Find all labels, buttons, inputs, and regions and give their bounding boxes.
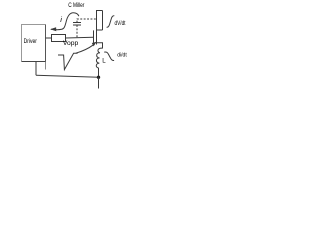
transistor Q1 gate bar (93, 30, 95, 42)
svg-text:L: L (102, 57, 106, 64)
svg-text:di/dt: di/dt (117, 53, 127, 59)
transistor Q1 drain lead (97, 29, 103, 31)
wire drain loop left vertical (97, 11, 103, 29)
arrow Vopp to source node (76, 45, 94, 53)
wire i current arrow curve (51, 13, 79, 30)
inductor L coil (96, 48, 102, 68)
svg-text:Driver: Driver (24, 38, 37, 45)
waveform icon di/dt ramp (104, 52, 114, 61)
wire stub below junction (98, 77, 100, 88)
wire dashed cap top to drain loop (77, 19, 97, 23)
waveform icon dV/dt ramp (107, 16, 115, 27)
arrowhead Vopp (92, 42, 97, 47)
arrowhead i (50, 27, 56, 31)
wire coil bottom to rail (98, 68, 100, 77)
svg-text:C Miller: C Miller (68, 2, 84, 9)
capacitor C Miller plates (73, 23, 81, 26)
transistor Q1 source lead (97, 43, 103, 49)
driver box U1 (22, 25, 46, 62)
wire drain vertical (102, 11, 104, 31)
wire bottom rail (36, 75, 99, 77)
driver box right edge (45, 25, 47, 62)
junction dot (97, 76, 100, 79)
driver box bottom edge (22, 61, 46, 63)
resistor Rg (52, 35, 66, 42)
svg-text:Vopp: Vopp (63, 40, 79, 47)
wire gate (driver output to resistor) (46, 37, 52, 39)
wire resistor to gate (66, 36, 94, 39)
wire driver return vertical (35, 62, 37, 76)
transistor Q1 channel bar (96, 29, 98, 45)
waveform icon Vopp notch (58, 53, 78, 69)
wire dashed cap bottom to gate wire (76, 25, 78, 38)
svg-text:dV/dt: dV/dt (115, 21, 126, 27)
